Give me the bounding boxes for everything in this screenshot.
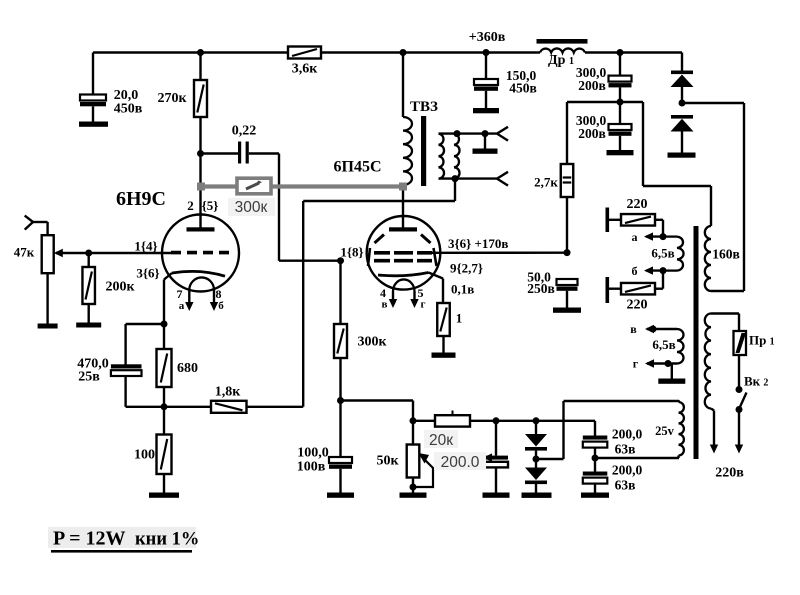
svg-text:{5}: {5}	[202, 198, 219, 213]
svg-text:200в: 200в	[578, 126, 606, 141]
svg-text:6П45С: 6П45С	[334, 159, 382, 176]
svg-text:450в: 450в	[114, 102, 143, 117]
svg-text:300к: 300к	[357, 335, 387, 350]
svg-text:220: 220	[627, 298, 648, 313]
svg-text:200,0: 200,0	[612, 427, 643, 442]
svg-text:в: в	[382, 299, 388, 311]
svg-text:20к: 20к	[429, 432, 453, 449]
svg-text:а: а	[632, 230, 638, 244]
svg-text:220: 220	[627, 197, 648, 212]
svg-text:680: 680	[177, 361, 198, 376]
svg-text:3,6к: 3,6к	[292, 62, 319, 77]
svg-text:0,22: 0,22	[232, 124, 257, 139]
svg-text:6,5в: 6,5в	[652, 337, 675, 352]
svg-text:ТВЗ: ТВЗ	[410, 99, 438, 115]
svg-text:1{4}: 1{4}	[134, 239, 157, 254]
svg-text:160в: 160в	[712, 247, 740, 262]
svg-text:г: г	[633, 357, 639, 371]
svg-text:6Н9С: 6Н9С	[116, 188, 166, 210]
svg-text:25в: 25в	[78, 370, 100, 385]
svg-text:200в: 200в	[578, 78, 606, 93]
svg-text:450в: 450в	[509, 81, 537, 96]
svg-text:кни 1%: кни 1%	[135, 530, 199, 550]
svg-text:в: в	[630, 322, 637, 336]
svg-text:200к: 200к	[105, 280, 135, 295]
svg-text:б: б	[632, 264, 638, 278]
svg-text:г: г	[421, 299, 426, 311]
svg-text:1,8к: 1,8к	[215, 385, 242, 400]
svg-text:50к: 50к	[376, 454, 399, 469]
svg-text:270к: 270к	[157, 91, 187, 106]
svg-text:6,5в: 6,5в	[651, 246, 674, 261]
svg-text:200,0: 200,0	[612, 463, 643, 478]
svg-text:47к: 47к	[14, 245, 35, 260]
svg-text:1{8}: 1{8}	[340, 245, 363, 260]
svg-text:100,0: 100,0	[297, 446, 329, 461]
svg-text:8: 8	[216, 287, 222, 301]
svg-text:7: 7	[177, 287, 183, 301]
svg-text:Др 1: Др 1	[548, 53, 574, 68]
svg-text:1: 1	[456, 311, 463, 326]
svg-text:63в: 63в	[615, 442, 636, 457]
svg-text:3{6} +170в: 3{6} +170в	[448, 236, 508, 251]
svg-text:100: 100	[134, 448, 155, 463]
svg-text:3{6}: 3{6}	[136, 266, 159, 281]
svg-text:100в: 100в	[297, 460, 326, 475]
svg-text:2,7к: 2,7к	[534, 175, 558, 190]
svg-text:P = 12W: P = 12W	[53, 528, 126, 550]
svg-text:63в: 63в	[615, 478, 636, 493]
svg-text:б: б	[218, 300, 224, 312]
svg-text:300к: 300к	[235, 199, 268, 216]
svg-text:+360в: +360в	[469, 30, 506, 45]
svg-text:2: 2	[187, 198, 194, 213]
svg-text:25v: 25v	[655, 424, 675, 438]
svg-text:250в: 250в	[527, 281, 555, 296]
svg-text:а: а	[179, 300, 185, 312]
svg-text:220в: 220в	[715, 466, 744, 481]
svg-text:200.0: 200.0	[441, 454, 480, 471]
svg-text:0,1в: 0,1в	[451, 282, 474, 297]
svg-text:9{2,7}: 9{2,7}	[450, 261, 483, 276]
